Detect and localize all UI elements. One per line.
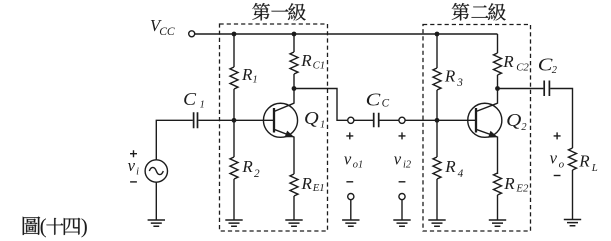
svg-text:i2: i2 xyxy=(403,160,411,171)
svg-text:): ) xyxy=(81,214,88,238)
svg-text:2: 2 xyxy=(521,122,526,133)
svg-text:i: i xyxy=(136,166,139,177)
svg-text:2: 2 xyxy=(552,65,557,76)
svg-text:R: R xyxy=(241,65,253,84)
svg-text:C: C xyxy=(183,89,196,109)
svg-text:v: v xyxy=(394,150,402,169)
svg-text:1: 1 xyxy=(200,100,205,111)
svg-text:R: R xyxy=(300,51,312,70)
svg-text:1: 1 xyxy=(320,120,325,131)
svg-text:R: R xyxy=(503,174,515,193)
svg-text:C1: C1 xyxy=(313,60,326,72)
svg-text:R: R xyxy=(301,174,313,193)
svg-text:R: R xyxy=(444,66,456,85)
svg-text:C2: C2 xyxy=(516,62,529,74)
svg-text:v: v xyxy=(550,148,558,167)
svg-text:E1: E1 xyxy=(312,182,325,194)
svg-text:o: o xyxy=(559,158,565,170)
svg-text:Q: Q xyxy=(304,108,319,128)
svg-text:(: ( xyxy=(40,214,47,238)
svg-text:E2: E2 xyxy=(515,183,529,195)
svg-text:CC: CC xyxy=(159,25,175,38)
svg-text:o1: o1 xyxy=(353,160,363,171)
svg-text:C: C xyxy=(366,89,381,109)
svg-text:C: C xyxy=(382,98,390,110)
svg-text:R: R xyxy=(444,157,456,176)
svg-text:C: C xyxy=(538,54,553,74)
svg-text:1: 1 xyxy=(253,74,258,85)
svg-text:Q: Q xyxy=(506,110,521,130)
svg-text:4: 4 xyxy=(458,168,464,180)
svg-text:R: R xyxy=(578,151,590,170)
svg-text:v: v xyxy=(344,150,352,169)
svg-text:L: L xyxy=(591,162,598,174)
svg-text:R: R xyxy=(241,157,253,176)
svg-text:v: v xyxy=(128,156,136,175)
svg-text:2: 2 xyxy=(254,168,260,180)
svg-text:R: R xyxy=(502,52,514,71)
svg-text:3: 3 xyxy=(456,77,463,89)
